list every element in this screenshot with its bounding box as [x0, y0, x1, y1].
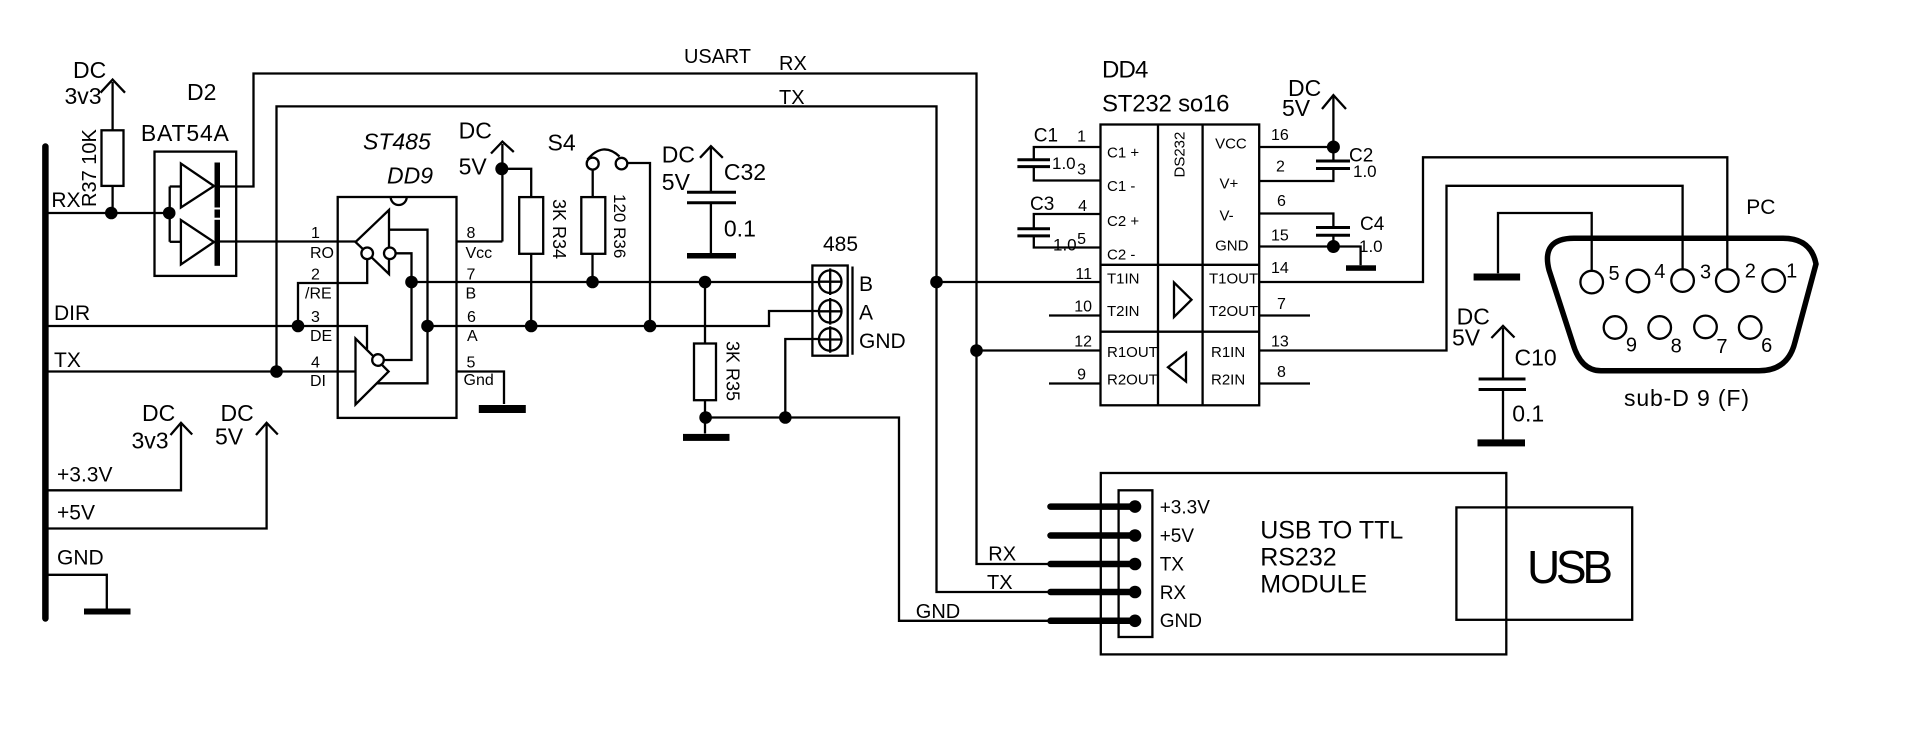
svg-text:DD4: DD4: [1102, 57, 1148, 84]
svg-text:DI: DI: [310, 373, 326, 390]
svg-text:DC: DC: [73, 57, 106, 83]
svg-text:R2IN: R2IN: [1211, 372, 1245, 389]
svg-text:DC: DC: [221, 400, 254, 426]
svg-text:5: 5: [1609, 263, 1620, 285]
svg-text:1: 1: [1077, 129, 1086, 146]
svg-text:14: 14: [1271, 260, 1289, 277]
svg-text:RS232: RS232: [1260, 543, 1336, 571]
svg-text:R37 10K: R37 10K: [79, 129, 101, 207]
svg-text:V-: V-: [1220, 207, 1234, 224]
svg-text:9: 9: [1626, 335, 1637, 357]
svg-text:C1: C1: [1034, 126, 1058, 147]
svg-text:5: 5: [467, 355, 476, 372]
svg-text:0.1: 0.1: [1512, 401, 1544, 427]
svg-text:R2OUT: R2OUT: [1107, 372, 1158, 389]
svg-text:+3.3V: +3.3V: [57, 464, 112, 487]
svg-text:7: 7: [1277, 296, 1286, 313]
svg-text:C1 +: C1 +: [1107, 145, 1139, 162]
svg-text:sub-D 9 (F): sub-D 9 (F): [1624, 385, 1749, 411]
svg-text:T2IN: T2IN: [1107, 303, 1140, 320]
svg-text:VCC: VCC: [1215, 136, 1247, 153]
svg-text:S4: S4: [548, 129, 576, 155]
svg-text:/RE: /RE: [305, 286, 332, 303]
svg-text:5V: 5V: [459, 154, 488, 180]
svg-text:TX: TX: [54, 349, 81, 372]
svg-text:5V: 5V: [1452, 325, 1481, 351]
svg-text:A: A: [859, 302, 873, 325]
svg-text:DC: DC: [662, 142, 695, 168]
svg-text:DC: DC: [459, 118, 492, 144]
svg-text:15: 15: [1271, 227, 1289, 244]
svg-text:6: 6: [1277, 193, 1286, 210]
svg-text:4: 4: [1654, 261, 1665, 283]
svg-text:RX: RX: [988, 544, 1016, 566]
svg-text:Gnd: Gnd: [464, 372, 494, 389]
svg-text:RO: RO: [310, 245, 334, 262]
svg-text:3v3: 3v3: [65, 83, 102, 109]
svg-text:7: 7: [1716, 336, 1727, 358]
svg-text:DD9: DD9: [387, 163, 433, 189]
svg-text:16: 16: [1271, 127, 1289, 144]
svg-text:B: B: [859, 273, 873, 296]
svg-text:13: 13: [1271, 334, 1289, 351]
svg-text:485: 485: [823, 233, 858, 256]
svg-text:7: 7: [467, 267, 476, 284]
svg-text:5V: 5V: [662, 169, 691, 195]
svg-text:C2 +: C2 +: [1107, 213, 1139, 230]
svg-text:2: 2: [1276, 158, 1285, 175]
svg-text:GND: GND: [1160, 611, 1202, 632]
svg-text:C10: C10: [1515, 345, 1557, 371]
svg-text:8: 8: [1671, 336, 1682, 358]
svg-text:1: 1: [1786, 261, 1797, 283]
svg-text:A: A: [467, 328, 478, 345]
svg-text:DC: DC: [142, 400, 175, 426]
svg-text:2: 2: [311, 267, 320, 284]
svg-text:8: 8: [467, 225, 476, 242]
svg-text:ST232 so16: ST232 so16: [1102, 91, 1230, 118]
svg-text:C32: C32: [724, 159, 766, 185]
svg-text:12: 12: [1074, 334, 1092, 351]
svg-text:T1OUT: T1OUT: [1209, 271, 1258, 288]
svg-text:5V: 5V: [215, 424, 244, 450]
svg-text:1.0: 1.0: [1359, 237, 1383, 256]
svg-text:R1IN: R1IN: [1211, 344, 1245, 361]
svg-text:ST485: ST485: [363, 129, 431, 155]
svg-text:5: 5: [1077, 231, 1086, 248]
svg-text:GND: GND: [916, 601, 960, 623]
svg-text:TX: TX: [779, 87, 805, 109]
svg-text:PC: PC: [1746, 196, 1775, 219]
svg-text:1.0: 1.0: [1052, 154, 1076, 173]
svg-text:1.0: 1.0: [1053, 236, 1077, 255]
svg-text:C3: C3: [1030, 194, 1054, 215]
svg-text:GND: GND: [859, 330, 906, 353]
svg-text:C4: C4: [1360, 214, 1385, 235]
svg-text:Vcc: Vcc: [466, 245, 493, 262]
svg-text:5V: 5V: [1282, 95, 1311, 121]
svg-text:120 R36: 120 R36: [610, 194, 629, 258]
svg-text:C1 -: C1 -: [1107, 178, 1135, 195]
svg-text:3: 3: [1077, 161, 1086, 178]
svg-text:DE: DE: [310, 328, 332, 345]
svg-text:DS232: DS232: [1172, 132, 1189, 178]
svg-text:BAT54A: BAT54A: [141, 120, 230, 146]
svg-text:8: 8: [1277, 364, 1286, 381]
svg-text:V+: V+: [1220, 176, 1239, 193]
svg-text:USART: USART: [684, 46, 751, 68]
svg-text:+5V: +5V: [1160, 526, 1195, 547]
svg-text:DIR: DIR: [54, 302, 90, 325]
svg-text:T2OUT: T2OUT: [1209, 303, 1258, 320]
svg-text:11: 11: [1075, 266, 1092, 283]
svg-text:9: 9: [1077, 367, 1086, 384]
svg-text:B: B: [466, 286, 477, 303]
svg-text:1.0: 1.0: [1353, 162, 1377, 181]
svg-text:T1IN: T1IN: [1107, 271, 1140, 288]
svg-text:GND: GND: [57, 547, 104, 570]
svg-text:4: 4: [311, 355, 320, 372]
svg-text:10: 10: [1074, 299, 1092, 316]
svg-text:RX: RX: [51, 189, 80, 212]
svg-text:3K R34: 3K R34: [549, 199, 569, 259]
svg-text:RX: RX: [1160, 583, 1187, 604]
svg-text:6: 6: [467, 309, 476, 326]
svg-text:RX: RX: [779, 53, 807, 75]
svg-text:USB: USB: [1527, 541, 1613, 593]
svg-text:6: 6: [1761, 335, 1772, 357]
svg-text:3: 3: [1700, 262, 1711, 284]
svg-text:R1OUT: R1OUT: [1107, 344, 1158, 361]
svg-text:1: 1: [311, 225, 320, 242]
svg-text:GND: GND: [1215, 238, 1249, 255]
svg-text:TX: TX: [1160, 555, 1185, 576]
svg-text:3K R35: 3K R35: [723, 341, 743, 401]
svg-text:+5V: +5V: [57, 502, 95, 525]
svg-text:3: 3: [311, 309, 320, 326]
svg-text:+3.3V: +3.3V: [1160, 498, 1211, 519]
svg-text:TX: TX: [987, 572, 1013, 594]
svg-text:USB TO TTL: USB TO TTL: [1260, 517, 1403, 545]
svg-text:0.1: 0.1: [724, 216, 756, 242]
svg-text:MODULE: MODULE: [1260, 571, 1367, 599]
svg-text:2: 2: [1745, 261, 1756, 283]
svg-text:D2: D2: [187, 79, 216, 105]
svg-text:3v3: 3v3: [132, 428, 169, 454]
svg-text:C2 -: C2 -: [1107, 247, 1135, 264]
svg-text:4: 4: [1078, 198, 1087, 215]
